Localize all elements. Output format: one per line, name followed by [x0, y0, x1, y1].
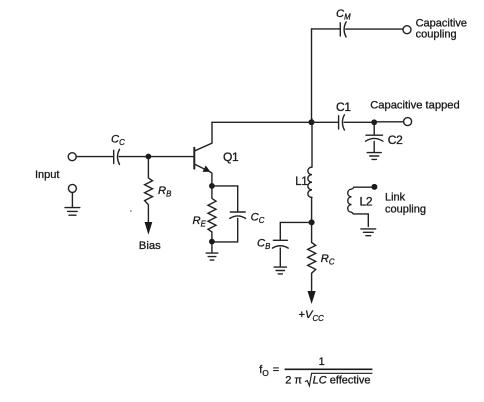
- svg-text:coupling: coupling: [416, 28, 457, 40]
- svg-text:C1: C1: [336, 100, 351, 114]
- svg-text:coupling: coupling: [385, 203, 426, 215]
- svg-text:LC effective: LC effective: [313, 375, 371, 387]
- transistor Q1 base bar: [193, 148, 195, 169]
- svg-text:RB: RB: [158, 185, 171, 199]
- ground C2: [367, 153, 381, 160]
- ground CB: [274, 267, 286, 274]
- bypass branch bottom wire: [214, 218, 238, 242]
- bypass branch down wire: [237, 186, 239, 211]
- tapped node: [371, 119, 377, 125]
- svg-text:Q1: Q1: [223, 150, 239, 164]
- wire Cc to base node: [119, 156, 194, 158]
- resistor RB: [145, 160, 153, 223]
- svg-text:L2: L2: [360, 195, 373, 209]
- svg-text:C2: C2: [388, 133, 403, 147]
- capacitor Cc bypass straight plate: [230, 211, 245, 213]
- wire tank node to CB: [280, 222, 311, 239]
- svg-text:=: =: [273, 364, 279, 376]
- svg-text:CB: CB: [257, 237, 270, 251]
- svg-text:RE: RE: [193, 215, 207, 229]
- svg-text:Link: Link: [385, 191, 406, 203]
- capacitor C2 straight plate: [366, 134, 383, 136]
- Vcc arrow head: [308, 291, 316, 304]
- formula fraction bar: [285, 368, 373, 370]
- svg-text:fO: fO: [259, 364, 268, 378]
- tank node: [309, 219, 315, 225]
- svg-text:L1: L1: [295, 176, 307, 188]
- capacitive coupling terminal: [403, 26, 411, 34]
- emitter bottom node: [209, 239, 215, 245]
- link node: [371, 184, 377, 190]
- svg-text:RC: RC: [321, 253, 335, 267]
- wire CB to ground: [279, 248, 281, 266]
- input terminal bottom: [68, 184, 76, 192]
- top wire to CM: [312, 28, 340, 30]
- ground input: [65, 208, 80, 216]
- formula radical: [305, 373, 373, 386]
- input terminal top: [68, 153, 76, 161]
- svg-text:Capacitive tapped: Capacitive tapped: [370, 100, 460, 112]
- wire C1 to tapped node: [344, 121, 374, 123]
- wire input to Cc: [76, 156, 112, 158]
- capacitor Cc input straight plate: [113, 150, 115, 163]
- capacitor CM curved plate: [344, 22, 346, 37]
- speck artifact: [130, 210, 132, 212]
- ground L2: [361, 229, 376, 236]
- svg-text:1: 1: [319, 356, 325, 368]
- inductor L2: [348, 187, 372, 226]
- wire tapped node down to C2: [373, 122, 375, 134]
- capacitor Cc bypass curved plate: [230, 216, 246, 219]
- wire emitter node to bypass branch: [212, 185, 238, 187]
- capacitor C2 curved plate: [366, 138, 383, 141]
- bias arrow head: [145, 222, 153, 235]
- wire main node to C1: [312, 121, 338, 123]
- inductor L1: [308, 119, 312, 197]
- wire CM to coupling terminal: [346, 28, 403, 30]
- capacitor CB curved plate: [272, 246, 288, 248]
- resistor RE: [208, 189, 216, 240]
- base node: [146, 154, 152, 160]
- capacitor C1 straight plate: [338, 116, 340, 129]
- formula: [259, 356, 372, 387]
- svg-text:2 π: 2 π: [285, 375, 302, 387]
- capacitor CB straight plate: [273, 239, 287, 241]
- Q1 emitter: [195, 164, 209, 171]
- main node: [309, 119, 315, 125]
- svg-text:Bias: Bias: [139, 240, 161, 252]
- emitter node: [209, 183, 215, 189]
- capacitor C1 curved plate: [342, 115, 344, 130]
- resistor RC: [308, 225, 316, 291]
- wire to input ground: [71, 193, 73, 208]
- wire tapped node to terminal: [374, 121, 403, 123]
- capacitive tapped terminal: [404, 118, 412, 126]
- wire C2 to ground: [373, 141, 375, 152]
- svg-text:CC: CC: [251, 211, 265, 225]
- Q1 emitter wire to node: [210, 172, 212, 184]
- svg-text:Input: Input: [35, 169, 59, 181]
- capacitor Cc input curved plate: [118, 149, 120, 164]
- ground RE: [206, 253, 218, 260]
- capacitor CM straight plate: [339, 23, 341, 36]
- wire to RE ground: [211, 244, 213, 253]
- collector bus wire: [212, 121, 312, 123]
- svg-text:CC: CC: [111, 133, 125, 147]
- svg-text:CM: CM: [336, 8, 351, 22]
- Q1 collector: [195, 122, 212, 151]
- wire L1 to tank node: [311, 197, 313, 219]
- Q1 emitter arrow head: [203, 166, 211, 172]
- vertical from CM corner to main node: [311, 29, 313, 119]
- svg-text:+VCC: +VCC: [299, 309, 325, 323]
